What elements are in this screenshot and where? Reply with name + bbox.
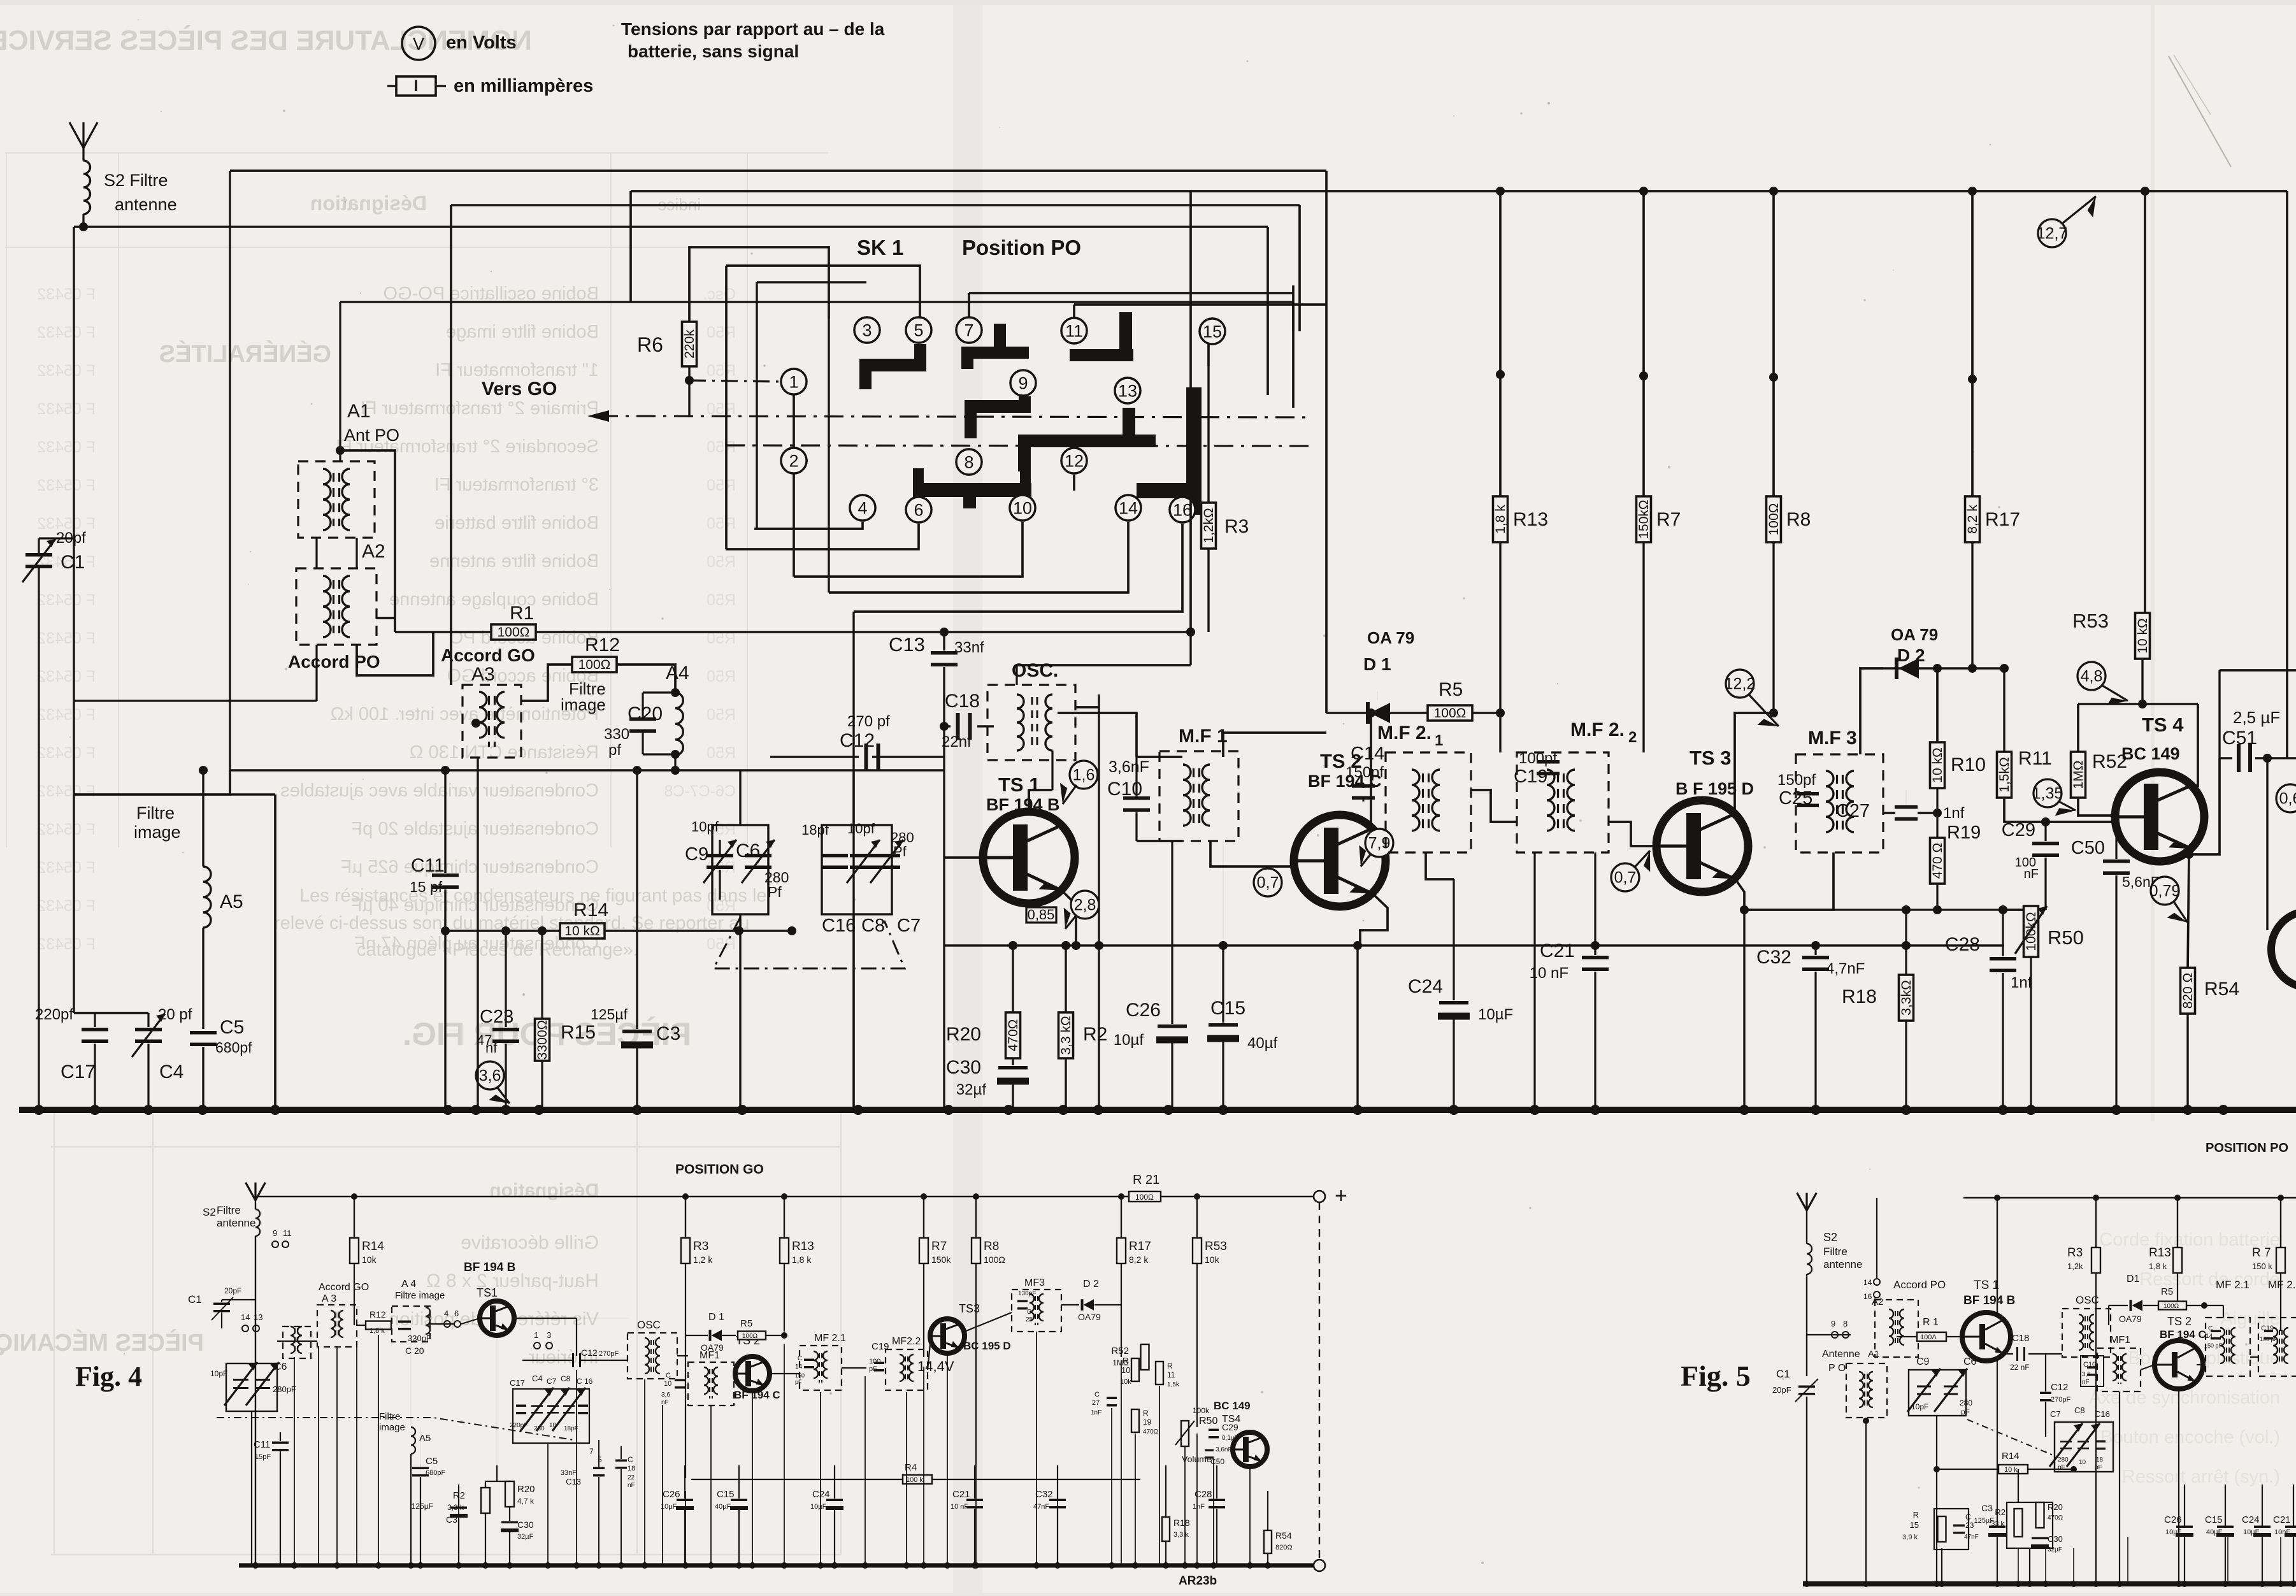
svg-text:Bobine filtre antenne: Bobine filtre antenne — [429, 551, 599, 572]
svg-text:40µF: 40µF — [715, 1503, 731, 1511]
svg-text:catalogue «Pièces de Rechange»: catalogue «Pièces de Rechange». — [357, 940, 638, 960]
svg-text:R54: R54 — [1275, 1530, 1292, 1541]
svg-text:V: V — [413, 34, 424, 54]
svg-text:10nF: 10nF — [2274, 1528, 2290, 1536]
svg-text:BC 195 D: BC 195 D — [963, 1340, 1011, 1352]
svg-text:18: 18 — [628, 1465, 635, 1472]
svg-text:23: 23 — [1965, 1521, 1974, 1530]
svg-text:20pF: 20pF — [224, 1286, 241, 1295]
svg-text:C8: C8 — [861, 916, 885, 936]
svg-text:POSITION GO: POSITION GO — [675, 1162, 764, 1177]
svg-text:R50: R50 — [707, 553, 736, 571]
svg-text:4,7nF: 4,7nF — [1826, 960, 1865, 977]
svg-text:F 05432: F 05432 — [37, 859, 96, 877]
svg-text:C17: C17 — [510, 1378, 525, 1388]
svg-text:47nF: 47nF — [1964, 1534, 1979, 1541]
svg-text:A1: A1 — [1868, 1349, 1879, 1360]
svg-text:C10: C10 — [2083, 1361, 2096, 1369]
svg-text:pf: pf — [608, 742, 621, 759]
svg-text:C7: C7 — [2050, 1409, 2061, 1419]
svg-text:15pF: 15pF — [255, 1453, 271, 1461]
svg-text:R50: R50 — [1199, 1416, 1217, 1427]
svg-text:20pF: 20pF — [1772, 1385, 1791, 1395]
svg-text:13: 13 — [254, 1312, 262, 1322]
svg-text:antenne: antenne — [1823, 1258, 1862, 1270]
svg-text:9: 9 — [1018, 373, 1028, 392]
svg-text:C6: C6 — [274, 1362, 287, 1372]
svg-text:Position PO: Position PO — [962, 236, 1081, 259]
svg-text:SK 1: SK 1 — [857, 236, 903, 259]
svg-text:R20: R20 — [946, 1024, 981, 1045]
svg-text:C7: C7 — [547, 1377, 557, 1386]
svg-text:F 05432: F 05432 — [37, 591, 96, 609]
svg-text:3300Ω: 3300Ω — [535, 1020, 550, 1060]
svg-text:Ressort arrêt (syn.): Ressort arrêt (syn.) — [2122, 1467, 2280, 1487]
svg-text:D 2: D 2 — [1083, 1279, 1099, 1290]
svg-text:3° transformateur FI: 3° transformateur FI — [434, 475, 599, 495]
svg-text:1: 1 — [789, 372, 798, 391]
svg-text:P O: P O — [1828, 1363, 1846, 1374]
svg-text:10k: 10k — [362, 1255, 377, 1265]
svg-text:12,2: 12,2 — [1725, 675, 1756, 693]
svg-text:A2: A2 — [1872, 1297, 1883, 1307]
svg-text:R3: R3 — [2067, 1246, 2083, 1260]
svg-text:MF2.2: MF2.2 — [892, 1336, 921, 1347]
svg-text:F 05432: F 05432 — [37, 400, 96, 418]
svg-text:10 nF: 10 nF — [951, 1503, 968, 1511]
svg-text:F 05432: F 05432 — [37, 897, 96, 915]
svg-text:C32: C32 — [1035, 1489, 1053, 1500]
svg-text:F 05432: F 05432 — [37, 744, 96, 762]
svg-text:1: 1 — [534, 1330, 538, 1340]
svg-text:1: 1 — [1435, 732, 1443, 749]
svg-text:10 k: 10 k — [2004, 1466, 2018, 1474]
svg-text:R50: R50 — [707, 362, 736, 380]
svg-text:11: 11 — [283, 1228, 292, 1238]
svg-text:100k: 100k — [1193, 1406, 1210, 1415]
svg-text:OA79: OA79 — [1078, 1312, 1101, 1322]
svg-text:Grille décorative: Grille décorative — [461, 1232, 599, 1253]
svg-text:C9: C9 — [685, 844, 708, 865]
svg-text:MF3: MF3 — [1024, 1277, 1045, 1288]
svg-text:C12: C12 — [840, 730, 875, 751]
svg-text:R7: R7 — [1656, 509, 1681, 530]
svg-text:TS 1: TS 1 — [998, 773, 1040, 796]
svg-text:100 pF: 100 pF — [2260, 1336, 2278, 1342]
svg-text:820 Ω: 820 Ω — [2181, 973, 2195, 1009]
svg-text:Filtre: Filtre — [217, 1204, 241, 1216]
svg-text:C1: C1 — [61, 552, 85, 573]
svg-text:Pf: Pf — [768, 884, 782, 900]
svg-text:11: 11 — [1167, 1370, 1175, 1379]
svg-text:C28: C28 — [1945, 934, 1980, 955]
svg-text:pF: pF — [1961, 1407, 1970, 1416]
svg-text:R5: R5 — [740, 1318, 752, 1329]
svg-text:Bobine filtre batterie: Bobine filtre batterie — [434, 513, 599, 533]
svg-text:C30: C30 — [946, 1057, 981, 1078]
svg-text:330pF: 330pF — [408, 1334, 431, 1343]
svg-text:330: 330 — [604, 726, 629, 743]
svg-text:150pf: 150pf — [1345, 764, 1384, 781]
svg-text:8,2 k: 8,2 k — [1965, 505, 1980, 534]
svg-text:10: 10 — [1013, 498, 1032, 517]
svg-text:C26: C26 — [663, 1489, 680, 1500]
svg-text:C13: C13 — [889, 633, 925, 656]
svg-text:R50: R50 — [707, 477, 736, 494]
svg-text:470Ω: 470Ω — [1006, 1019, 1021, 1052]
svg-text:C25: C25 — [1779, 788, 1812, 809]
svg-text:C19: C19 — [2261, 1325, 2274, 1332]
svg-text:3,3 k: 3,3 k — [1173, 1531, 1189, 1539]
svg-text:Résistance CTN 130 Ω: Résistance CTN 130 Ω — [410, 742, 599, 763]
svg-text:C9: C9 — [1916, 1356, 1930, 1367]
svg-text:150 pF: 150 pF — [2204, 1342, 2223, 1349]
svg-text:Potentiomètre avec inter. 100: Potentiomètre avec inter. 100 kΩ — [331, 704, 599, 724]
svg-text:C7: C7 — [897, 916, 921, 936]
svg-text:14: 14 — [1863, 1278, 1872, 1287]
svg-text:15: 15 — [1910, 1520, 1919, 1530]
svg-text:F 05432: F 05432 — [37, 782, 96, 800]
svg-text:R 7: R 7 — [2252, 1246, 2271, 1260]
svg-text:9: 9 — [1831, 1319, 1835, 1328]
svg-text:GÉNÉRALITÉS: GÉNÉRALITÉS — [159, 340, 331, 368]
svg-text:F 05432: F 05432 — [37, 821, 96, 838]
svg-text:R2: R2 — [1083, 1024, 1107, 1045]
svg-text:C50: C50 — [2071, 838, 2105, 858]
svg-text:150 k: 150 k — [2252, 1262, 2272, 1271]
svg-text:C18: C18 — [2012, 1333, 2030, 1344]
svg-text:Fig. 5: Fig. 5 — [1681, 1360, 1751, 1392]
svg-text:20 pf: 20 pf — [158, 1006, 192, 1023]
svg-text:C26: C26 — [2164, 1514, 2182, 1525]
svg-text:R50: R50 — [2048, 926, 2084, 949]
svg-text:0,7: 0,7 — [1257, 873, 1279, 891]
svg-text:19: 19 — [1143, 1418, 1152, 1427]
svg-text:220pF: 220pF — [510, 1422, 527, 1429]
svg-text:33 k: 33 k — [1991, 1520, 2004, 1528]
svg-text:150k: 150k — [931, 1255, 951, 1265]
svg-text:TS1: TS1 — [477, 1286, 498, 1299]
svg-text:100Ω: 100Ω — [1135, 1193, 1154, 1202]
svg-text:4,8: 4,8 — [2081, 667, 2103, 685]
svg-text:680pF: 680pF — [426, 1469, 445, 1477]
svg-text:C3: C3 — [1981, 1503, 1993, 1513]
svg-text:32µf: 32µf — [956, 1081, 987, 1098]
svg-text:100Ω: 100Ω — [742, 1333, 758, 1340]
svg-text:Accord PO: Accord PO — [288, 652, 380, 672]
svg-text:14: 14 — [2206, 1333, 2213, 1340]
svg-text:Accord PO: Accord PO — [1893, 1279, 1946, 1291]
svg-text:C1: C1 — [1776, 1368, 1790, 1380]
svg-text:R20: R20 — [2048, 1502, 2063, 1512]
svg-text:16: 16 — [1863, 1292, 1872, 1301]
svg-text:R13: R13 — [792, 1240, 814, 1253]
svg-text:1MΩ: 1MΩ — [2071, 761, 2086, 789]
svg-text:3,3 k: 3,3 k — [447, 1503, 464, 1512]
svg-text:10µF: 10µF — [810, 1503, 827, 1511]
svg-text:C8: C8 — [2074, 1405, 2085, 1415]
svg-text:10 kΩ: 10 kΩ — [1930, 747, 1945, 782]
svg-text:C: C — [666, 1372, 671, 1379]
svg-text:antenne: antenne — [217, 1217, 255, 1229]
svg-text:Accord GO: Accord GO — [441, 645, 535, 665]
svg-text:OSC: OSC — [637, 1319, 661, 1331]
svg-text:0,79: 0,79 — [2149, 882, 2181, 900]
svg-text:280: 280 — [534, 1425, 545, 1432]
svg-text:3,6nF: 3,6nF — [1109, 758, 1149, 776]
svg-text:R18: R18 — [1842, 986, 1877, 1007]
svg-text:33nF: 33nF — [561, 1469, 577, 1477]
svg-text:10: 10 — [549, 1422, 557, 1429]
svg-text:10pF: 10pF — [210, 1369, 227, 1378]
svg-text:M.F 2.: M.F 2. — [1377, 723, 1431, 744]
svg-text:Osc.: Osc. — [703, 285, 736, 303]
svg-text:14,4V: 14,4V — [917, 1358, 954, 1374]
svg-text:12,7: 12,7 — [2037, 224, 2068, 242]
svg-text:R7: R7 — [931, 1240, 947, 1253]
svg-text:1,2 k: 1,2 k — [693, 1255, 713, 1265]
svg-text:C21: C21 — [2273, 1514, 2291, 1525]
svg-text:image: image — [379, 1422, 405, 1433]
svg-text:1,8 k: 1,8 k — [1493, 505, 1508, 534]
svg-text:D 1: D 1 — [1363, 654, 1391, 674]
svg-text:32µF: 32µF — [517, 1533, 534, 1541]
svg-text:12: 12 — [1065, 451, 1084, 470]
svg-text:27: 27 — [1092, 1399, 1100, 1407]
svg-text:C6-C7-C8: C6-C7-C8 — [664, 782, 736, 800]
svg-text:F 05432: F 05432 — [37, 438, 96, 456]
svg-text:Bobine couplage antenne: Bobine couplage antenne — [389, 589, 599, 610]
svg-text:14: 14 — [241, 1312, 250, 1322]
svg-text:I: I — [414, 77, 419, 95]
svg-text:100pf: 100pf — [1519, 750, 1557, 767]
svg-text:R8: R8 — [1786, 509, 1811, 530]
svg-text:R15: R15 — [561, 1022, 596, 1043]
svg-text:C5: C5 — [426, 1456, 438, 1467]
svg-text:C1: C1 — [188, 1293, 202, 1305]
svg-text:C30: C30 — [2048, 1534, 2063, 1544]
svg-text:1,2k: 1,2k — [2067, 1262, 2083, 1271]
svg-text:3,9 k: 3,9 k — [1902, 1534, 1918, 1541]
svg-text:S2: S2 — [1823, 1231, 1837, 1244]
svg-text:R11: R11 — [2018, 748, 2052, 769]
svg-text:270 pf: 270 pf — [847, 713, 890, 730]
svg-text:C29: C29 — [2002, 820, 2035, 840]
svg-text:OSC.: OSC. — [1012, 660, 1058, 681]
svg-text:R50: R50 — [707, 744, 736, 762]
svg-text:S2: S2 — [203, 1206, 216, 1218]
svg-text:R13: R13 — [2149, 1246, 2171, 1260]
svg-text:100Ω: 100Ω — [1767, 503, 1781, 536]
svg-text:pF: pF — [2058, 1464, 2065, 1471]
svg-text:1,35: 1,35 — [2032, 784, 2063, 802]
svg-text:40µf: 40µf — [1247, 1035, 1278, 1052]
svg-text:270pF: 270pF — [599, 1350, 619, 1358]
svg-text:2: 2 — [1628, 729, 1637, 746]
svg-text:C18: C18 — [945, 691, 980, 712]
svg-text:M.F 1: M.F 1 — [1179, 726, 1228, 747]
svg-text:8,2 k: 8,2 k — [1129, 1255, 1149, 1265]
svg-text:C17: C17 — [61, 1061, 96, 1082]
svg-text:C15: C15 — [1210, 998, 1245, 1019]
svg-text:MF 2.1: MF 2.1 — [814, 1333, 846, 1344]
svg-text:3,3 kΩ: 3,3 kΩ — [1059, 1016, 1073, 1054]
svg-text:5: 5 — [914, 320, 923, 340]
svg-text:D 1: D 1 — [708, 1312, 724, 1323]
svg-text:TS 2: TS 2 — [2167, 1315, 2192, 1328]
svg-text:470Ω: 470Ω — [2048, 1514, 2063, 1521]
svg-text:R50: R50 — [707, 515, 736, 533]
svg-text:A4: A4 — [666, 663, 689, 684]
svg-text:C: C — [1094, 1391, 1100, 1398]
svg-text:Filtre image: Filtre image — [395, 1290, 445, 1301]
svg-text:R12: R12 — [370, 1309, 386, 1319]
svg-text:C4: C4 — [159, 1061, 183, 1082]
svg-text:nf: nf — [485, 1040, 498, 1056]
svg-text:OA 79: OA 79 — [1891, 625, 1938, 644]
svg-text:nF: nF — [2082, 1379, 2090, 1386]
svg-text:15: 15 — [1203, 322, 1222, 341]
svg-text:Filtre: Filtre — [379, 1411, 400, 1422]
svg-text:R14: R14 — [362, 1240, 384, 1253]
svg-text:A5: A5 — [220, 891, 243, 912]
svg-text:7: 7 — [589, 1447, 594, 1456]
svg-text:R50: R50 — [707, 706, 736, 724]
svg-text:BC 149: BC 149 — [1214, 1400, 1251, 1412]
svg-text:C26: C26 — [1126, 1000, 1161, 1021]
svg-text:C21: C21 — [952, 1489, 970, 1500]
svg-text:C16: C16 — [822, 916, 856, 936]
svg-text:M.F 2.: M.F 2. — [1570, 719, 1625, 740]
svg-text:R17: R17 — [1985, 509, 2020, 530]
svg-text:BC 149: BC 149 — [2121, 744, 2180, 763]
svg-text:2,8: 2,8 — [1074, 896, 1096, 914]
svg-text:3,6nF: 3,6nF — [1216, 1446, 1232, 1453]
svg-text:0,85: 0,85 — [1028, 907, 1055, 923]
svg-text:BF 194 B: BF 194 B — [986, 795, 1060, 814]
svg-text:0,7: 0,7 — [1614, 868, 1637, 886]
svg-text:C12: C12 — [2051, 1382, 2069, 1393]
svg-text:R6: R6 — [637, 333, 663, 356]
svg-text:R50: R50 — [707, 438, 736, 456]
svg-text:M.F 3: M.F 3 — [1808, 728, 1857, 749]
svg-text:10pf: 10pf — [691, 819, 719, 835]
svg-text:R: R — [1143, 1409, 1149, 1418]
svg-text:10k: 10k — [1205, 1255, 1220, 1265]
svg-text:Désignation: Désignation — [489, 1180, 599, 1201]
svg-text:10µf: 10µf — [1114, 1032, 1144, 1049]
svg-text:R20: R20 — [517, 1484, 535, 1495]
svg-text:OA 79: OA 79 — [1367, 628, 1414, 647]
svg-text:150pf: 150pf — [1777, 772, 1816, 789]
svg-text:C21: C21 — [1540, 940, 1575, 961]
svg-text:BF 194 B: BF 194 B — [1963, 1294, 2015, 1307]
svg-text:1,8 k: 1,8 k — [792, 1255, 812, 1265]
svg-text:F 05432: F 05432 — [37, 285, 96, 303]
svg-text:F 05432: F 05432 — [37, 362, 96, 380]
svg-text:32µF: 32µF — [2048, 1546, 2062, 1553]
svg-text:MF 2.1: MF 2.1 — [2216, 1279, 2249, 1291]
svg-text:220pf: 220pf — [35, 1006, 73, 1023]
svg-text:C15: C15 — [717, 1489, 735, 1500]
svg-text:10µF: 10µF — [2243, 1528, 2260, 1536]
svg-text:18: 18 — [2096, 1456, 2104, 1463]
svg-text:Bobine filtre image: Bobine filtre image — [446, 322, 599, 342]
svg-text:Accord GO: Accord GO — [319, 1282, 369, 1293]
svg-text:R3: R3 — [1224, 516, 1249, 537]
svg-text:image: image — [134, 823, 181, 842]
svg-text:820Ω: 820Ω — [1275, 1544, 1293, 1551]
svg-text:25: 25 — [1026, 1316, 1033, 1323]
svg-text:pF: pF — [795, 1379, 802, 1385]
svg-text:10 kΩ: 10 kΩ — [2135, 618, 2150, 653]
svg-text:A3: A3 — [471, 664, 495, 685]
svg-text:R50: R50 — [707, 935, 736, 953]
svg-text:C23: C23 — [480, 1007, 513, 1027]
svg-text:R: R — [1913, 1510, 1919, 1520]
svg-text:470 Ω: 470 Ω — [1930, 843, 1945, 879]
svg-text:100Ω: 100Ω — [1434, 706, 1467, 721]
svg-text:10pf: 10pf — [847, 821, 875, 837]
svg-text:2,5 µF: 2,5 µF — [2233, 708, 2280, 727]
svg-text:10: 10 — [2079, 1459, 2086, 1466]
svg-text:BF 194 C: BF 194 C — [734, 1389, 780, 1401]
svg-text:1,8 k: 1,8 k — [2149, 1262, 2167, 1271]
svg-text:C: C — [798, 1355, 802, 1362]
svg-text:14: 14 — [1119, 498, 1138, 517]
svg-text:TS 3: TS 3 — [1690, 747, 1731, 769]
svg-text:C 20: C 20 — [405, 1346, 424, 1356]
svg-text:Filtre: Filtre — [1823, 1246, 1848, 1258]
svg-text:C11: C11 — [254, 1439, 270, 1450]
svg-text:A 4: A 4 — [401, 1279, 416, 1290]
svg-text:1nF: 1nF — [1091, 1409, 1101, 1416]
svg-text:Fig. 4: Fig. 4 — [75, 1361, 142, 1392]
svg-text:OA79: OA79 — [701, 1342, 724, 1353]
svg-text:PIÈCES MÉCANIQUES: PIÈCES MÉCANIQUES — [0, 1328, 204, 1356]
svg-text:13: 13 — [1118, 381, 1137, 400]
svg-text:40µF: 40µF — [2206, 1528, 2223, 1536]
svg-text:F 05432: F 05432 — [37, 706, 96, 724]
svg-text:22 nF: 22 nF — [2010, 1363, 2030, 1372]
svg-text:C50: C50 — [1210, 1457, 1224, 1466]
svg-text:22nf: 22nf — [942, 733, 972, 751]
svg-text:S2 Filtre: S2 Filtre — [104, 171, 168, 190]
svg-text:Les résistances et condensateu: Les résistances et condensateurs ne figu… — [299, 886, 767, 906]
svg-text:1,8 k: 1,8 k — [370, 1327, 385, 1335]
svg-text:1,6: 1,6 — [1073, 766, 1095, 784]
svg-text:3: 3 — [862, 320, 872, 340]
svg-text:A1: A1 — [347, 401, 371, 422]
svg-text:280: 280 — [2058, 1456, 2069, 1463]
svg-text:D 2: D 2 — [1897, 645, 1925, 665]
svg-text:125µF: 125µF — [412, 1502, 433, 1511]
svg-text:C6: C6 — [736, 840, 760, 861]
svg-text:22: 22 — [628, 1474, 635, 1481]
svg-text:R50: R50 — [707, 324, 736, 341]
svg-text:10µF: 10µF — [2165, 1528, 2182, 1536]
svg-text:1,5kΩ: 1,5kΩ — [1997, 757, 2012, 792]
svg-text:R 21: R 21 — [1133, 1173, 1159, 1187]
svg-text:1,2kΩ: 1,2kΩ — [1202, 508, 1216, 543]
svg-text:10µF: 10µF — [1478, 1006, 1513, 1023]
svg-text:+: + — [1335, 1184, 1347, 1208]
svg-text:F 05432: F 05432 — [37, 935, 96, 953]
svg-text:100: 100 — [869, 1358, 880, 1365]
svg-text:C27: C27 — [1836, 801, 1870, 821]
svg-text:10 nF: 10 nF — [1530, 965, 1568, 982]
svg-text:150kΩ: 150kΩ — [1637, 500, 1651, 538]
